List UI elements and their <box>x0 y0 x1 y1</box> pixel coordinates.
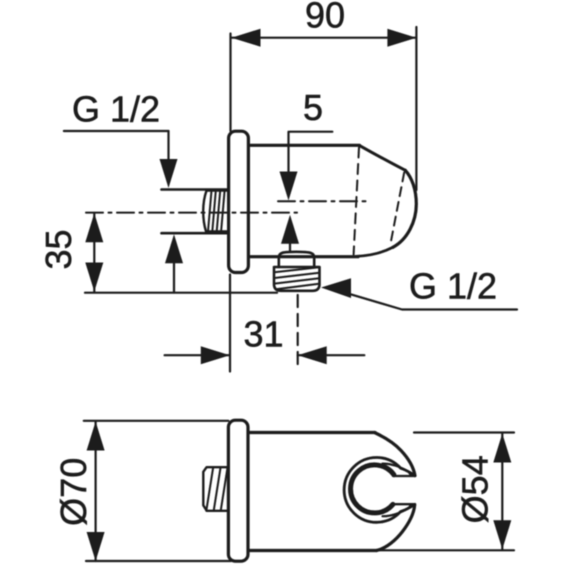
svg-text:G 1/2: G 1/2 <box>72 89 160 130</box>
svg-text:G 1/2: G 1/2 <box>409 266 497 307</box>
svg-text:Ø54: Ø54 <box>455 455 496 523</box>
svg-text:31: 31 <box>244 314 284 355</box>
svg-text:5: 5 <box>303 87 323 128</box>
svg-text:35: 35 <box>38 229 79 269</box>
svg-text:90: 90 <box>305 0 345 36</box>
svg-text:Ø70: Ø70 <box>53 458 94 526</box>
